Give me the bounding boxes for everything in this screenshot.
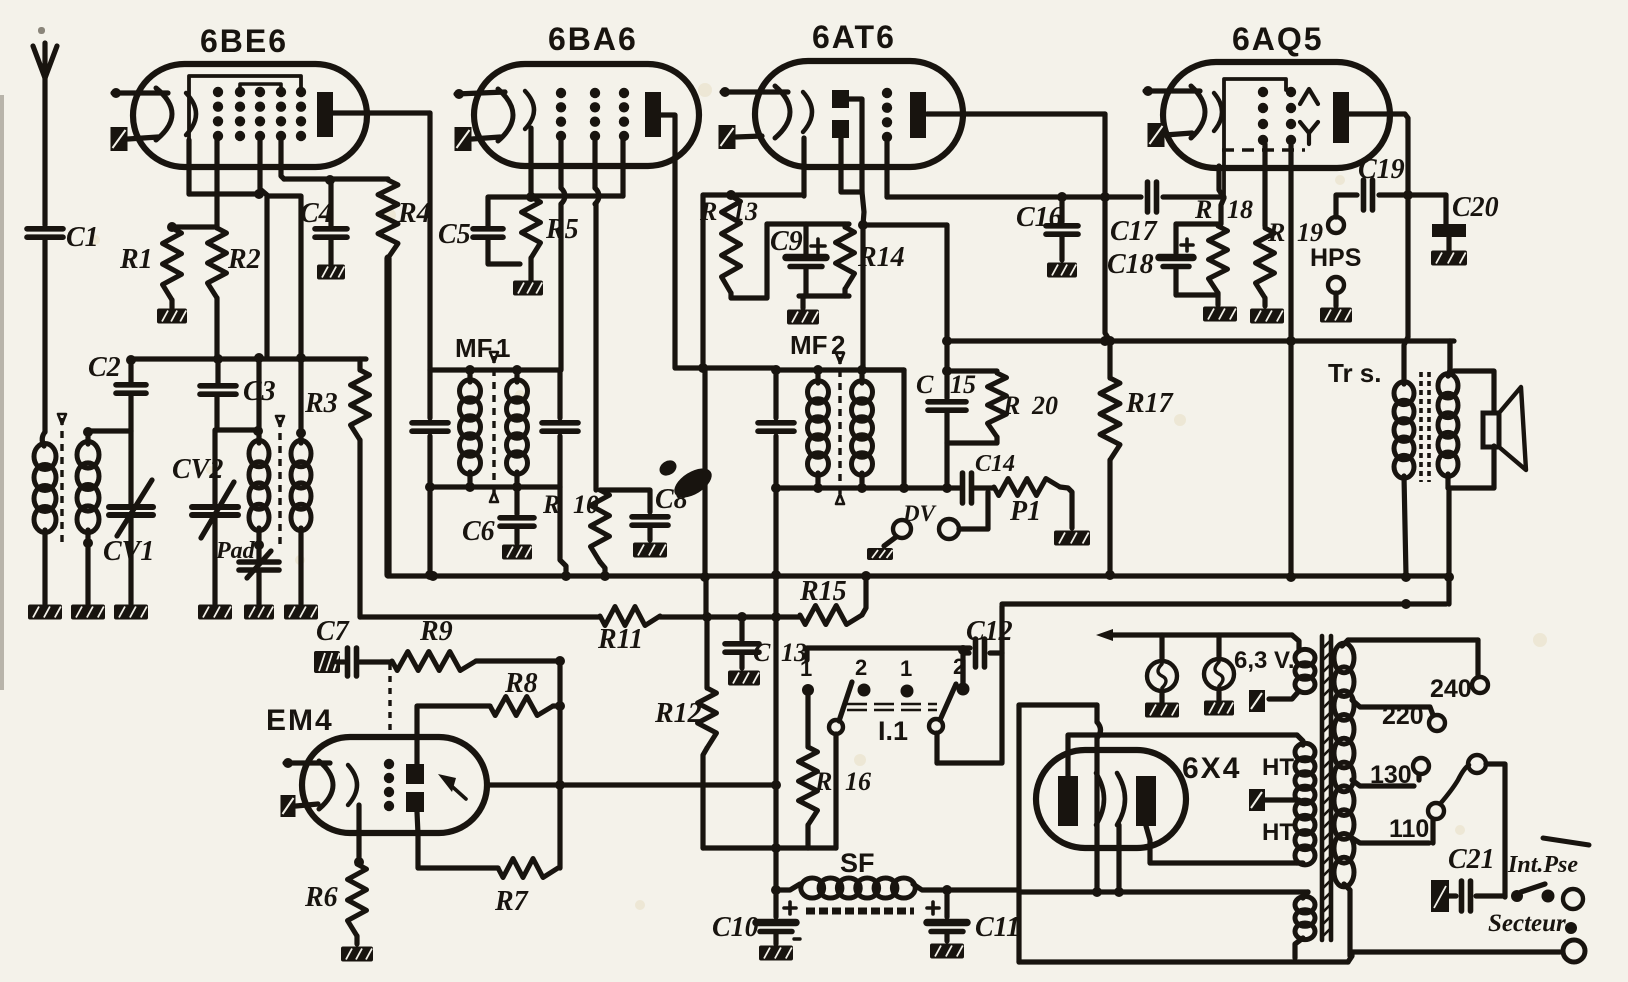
6BE6 grid g1 dots — [213, 87, 223, 141]
tube 6X4 label — [1182, 752, 1241, 785]
resistor R12 — [654, 617, 717, 848]
svg-text:10: 10 — [573, 490, 599, 519]
svg-text:220: 220 — [1382, 702, 1424, 730]
ink blob — [657, 457, 717, 503]
svg-text:R9: R9 — [419, 616, 453, 647]
switch box right — [937, 653, 1002, 763]
tap 130 — [1352, 758, 1429, 789]
6BE6 grid g5 dots — [296, 87, 306, 141]
AVC bus2 — [360, 614, 600, 619]
6BE6 internal frame — [189, 76, 301, 160]
variable capacitor CV1 — [103, 431, 154, 604]
ground R5 — [513, 281, 543, 296]
svg-text:240: 240 — [1430, 675, 1472, 703]
wire antenna to coil — [42, 240, 45, 446]
capacitor C4 — [300, 181, 347, 264]
bus1 right bend — [1444, 488, 1454, 604]
voltage selector link — [1440, 755, 1505, 897]
ground C13 — [728, 671, 760, 686]
wire diode to MF2 — [858, 220, 904, 370]
svg-text:16: 16 — [845, 767, 871, 796]
label I.1 — [878, 716, 908, 746]
Tr s core — [1421, 372, 1429, 482]
svg-text:R17: R17 — [1125, 388, 1174, 419]
6AQ5 grid g1 dots — [1258, 87, 1268, 145]
svg-text:C1: C1 — [66, 222, 99, 253]
power transformer core — [1321, 636, 1331, 940]
wire speaker top branch — [1447, 341, 1452, 371]
6AT6 grid cap stub — [720, 87, 788, 97]
tube 6BE6 envelope — [133, 64, 367, 167]
svg-text:18: 18 — [1227, 195, 1253, 224]
svg-text:SF: SF — [840, 848, 875, 878]
ground R18 — [1203, 307, 1237, 322]
6BA6 grid g3 dots — [619, 88, 629, 141]
6AT6 cathode arc1 — [775, 86, 790, 138]
6BE6 pin wire osc-a — [267, 140, 301, 358]
chassis HT — [1249, 789, 1299, 811]
oscillator coil left winding — [249, 353, 269, 550]
svg-text:C: C — [916, 370, 934, 399]
capacitor C20 — [1432, 192, 1499, 250]
HT+ line — [1002, 599, 1446, 609]
6X4 plate1 wire — [1068, 735, 1297, 776]
dial lamp 1 — [1147, 635, 1177, 702]
label HPS — [1310, 244, 1361, 272]
primary top wire — [1348, 640, 1478, 677]
resistor R6 — [304, 864, 367, 944]
rectifier box — [1019, 705, 1097, 890]
svg-text:MF: MF — [790, 330, 828, 360]
EM4 indicator arrow — [438, 774, 466, 799]
svg-text:I.1: I.1 — [878, 716, 908, 746]
mains switch Int — [1507, 852, 1583, 909]
6BA6 grid g1 dots — [556, 88, 566, 141]
MF2 top bar — [771, 365, 904, 375]
Tr s secondary — [1438, 341, 1458, 488]
6BA6 cathode arc2 — [525, 91, 534, 129]
svg-text:6AT6: 6AT6 — [812, 19, 896, 55]
6BA6 cathode wire — [528, 128, 533, 197]
svg-text:R6: R6 — [304, 882, 338, 913]
mains line bottom — [1019, 922, 1585, 962]
6AQ5 anode — [1333, 92, 1408, 337]
speaker — [1483, 387, 1526, 470]
resistor R17 — [1100, 378, 1174, 580]
wire bus2 to switch — [771, 617, 781, 895]
wire R8R7 right rail — [555, 656, 565, 868]
EM4 target plate 2 — [406, 792, 424, 812]
6BE6 screen line — [284, 175, 388, 185]
ground R1 — [157, 309, 187, 324]
svg-text:C19: C19 — [1358, 154, 1405, 185]
svg-text:Secteur: Secteur — [1488, 910, 1566, 937]
6AT6 grid wire — [887, 141, 1110, 202]
6BE6 pin wire osc-g — [254, 140, 267, 358]
svg-text:15: 15 — [950, 370, 976, 399]
6AQ5 cathode arc2 — [1214, 93, 1222, 131]
tube 6BA6 label — [548, 21, 638, 57]
speaker jack HPS upper — [1328, 195, 1357, 233]
svg-text:13: 13 — [732, 197, 758, 226]
ground CV2 — [198, 605, 232, 620]
svg-text:R4: R4 — [397, 198, 431, 229]
svg-text:C5: C5 — [438, 219, 471, 250]
6X4 cathode wire — [1116, 825, 1121, 890]
MF1 secondary winding — [507, 370, 528, 487]
ground lamp1 — [1145, 703, 1179, 718]
EM4 target wire up — [417, 706, 490, 764]
6BE6 grid g3 dots — [255, 87, 265, 141]
capacitor C11 — [927, 885, 1020, 943]
paper stains — [90, 83, 1547, 910]
wire 6AT6 k down — [700, 195, 712, 622]
tube 6BA6 envelope — [474, 64, 699, 166]
6X4 heater wire — [1097, 705, 1101, 890]
EM4 grid dash — [384, 664, 394, 811]
primary winding — [1334, 640, 1354, 956]
capacitor C10 — [712, 890, 800, 944]
6BA6 anode wire — [661, 115, 776, 373]
capacitor C17 — [1105, 182, 1224, 247]
svg-text:R7: R7 — [494, 886, 529, 917]
ground C4 — [317, 265, 345, 280]
6AQ5 internal frame — [1224, 79, 1286, 196]
capacitor C16 — [1016, 192, 1078, 260]
6AT6 diode plate 1 — [832, 90, 849, 108]
svg-text:R: R — [814, 767, 832, 796]
svg-text:HT: HT — [1262, 819, 1294, 846]
resistor R13 — [699, 190, 767, 298]
tube EM4 envelope — [302, 737, 487, 833]
B+ bus1 — [388, 571, 1448, 581]
label 6.3V — [1234, 647, 1295, 674]
resistor R4 — [378, 180, 431, 575]
MF2 bottom bar — [771, 483, 909, 493]
capacitor C19 — [1358, 154, 1446, 210]
MF1 primary winding — [460, 370, 481, 487]
phono jack DV right — [939, 492, 988, 539]
resistor R7 — [494, 859, 558, 918]
ground Pad — [244, 605, 274, 620]
svg-text:HT: HT — [1262, 754, 1294, 781]
6BE6 grid g2 dots — [235, 87, 245, 141]
6BE6 pin wire g — [214, 140, 219, 228]
6AQ5 heater — [1148, 123, 1193, 147]
tube 6AQ5 label — [1232, 21, 1324, 57]
svg-text:R: R — [1194, 195, 1212, 224]
svg-text:CV1: CV1 — [103, 536, 154, 567]
6AQ5 grid g2 dots — [1286, 87, 1296, 145]
tube 6AT6 label — [812, 19, 896, 55]
tube 6AQ5 envelope — [1163, 62, 1390, 168]
heater winding 6.3V — [1269, 649, 1315, 699]
MF1 left rail — [412, 113, 448, 575]
svg-text:R: R — [542, 490, 560, 519]
svg-text:C: C — [753, 638, 771, 667]
svg-text:C12: C12 — [966, 616, 1013, 647]
svg-text:Tr s.: Tr s. — [1328, 358, 1381, 388]
input transformer secondary coil L2 — [77, 427, 131, 604]
ground C20 — [1431, 251, 1467, 266]
EM4 cathode wire — [354, 805, 364, 867]
svg-text:CV2: CV2 — [172, 454, 223, 485]
ground lamp2 — [1204, 701, 1234, 716]
svg-text:Int.Pse: Int.Pse — [1507, 852, 1578, 878]
ground C11 — [930, 944, 964, 959]
capacitor C21 block — [1431, 844, 1505, 912]
svg-text:Pad: Pad — [215, 538, 256, 564]
wire C3 to CV2 — [214, 396, 219, 430]
resistor R11 — [597, 607, 660, 656]
6X4 plate 1 — [1058, 776, 1078, 826]
capacitor C5 — [438, 197, 531, 264]
MF1 top bar — [430, 365, 560, 375]
svg-text:R: R — [1267, 218, 1285, 247]
wire secondary to speaker — [1448, 371, 1494, 488]
phono jack DV left — [884, 501, 937, 546]
svg-text:C20: C20 — [1452, 192, 1499, 223]
ground ant primary — [28, 605, 62, 620]
capacitor C12 — [963, 616, 1013, 684]
capacitor C2 — [116, 359, 146, 431]
MF2 primary winding — [808, 370, 829, 488]
capacitor C18 — [1107, 224, 1218, 295]
6AT6 anode — [910, 92, 1105, 138]
capacitor C6 — [462, 487, 534, 547]
Tr s primary — [1394, 337, 1414, 582]
ground C8 — [633, 543, 667, 558]
ground R6 — [341, 947, 373, 962]
resistor R1 — [119, 222, 182, 308]
svg-text:R1: R1 — [119, 244, 153, 275]
heater line arrow — [1096, 629, 1299, 651]
svg-text:C9: C9 — [770, 226, 803, 257]
svg-text:20: 20 — [1031, 391, 1058, 420]
6BE6 grid cap stub — [111, 88, 168, 98]
EM4 grid cap stub — [283, 758, 330, 768]
switch contact 1b — [900, 656, 914, 698]
MF2 left rail — [758, 370, 794, 488]
terminal 240 — [1430, 675, 1488, 703]
antenna — [33, 43, 57, 225]
EM4 heater — [281, 795, 319, 817]
6BE6 grid g4 dots — [276, 87, 286, 141]
capacitor C3 — [200, 360, 276, 407]
MF2 core — [836, 353, 844, 504]
svg-text:6X4: 6X4 — [1182, 752, 1241, 785]
resistor R15 — [799, 576, 866, 625]
resistor R8 — [490, 668, 560, 716]
svg-text:1: 1 — [496, 333, 510, 363]
svg-text:19: 19 — [1297, 218, 1323, 247]
svg-text:C11: C11 — [975, 912, 1020, 943]
switch contact 2 — [855, 655, 871, 697]
EM4 cathode arc1 — [319, 761, 333, 809]
6AT6 cathode arc2 — [803, 92, 812, 132]
resistor R20 — [942, 366, 1058, 443]
resistor R10 — [542, 490, 610, 575]
ground R19 — [1250, 309, 1284, 324]
6BA6 anode — [645, 92, 661, 137]
ground ant secondary — [71, 605, 105, 620]
svg-text:C10: C10 — [712, 912, 759, 943]
resistor R14 — [836, 224, 905, 296]
EM4 target plate 1 — [406, 764, 424, 784]
resistor R5 — [522, 192, 579, 282]
wire MF2 left rail down — [771, 488, 781, 622]
6AQ5 cathode arc1 — [1191, 86, 1205, 138]
6AQ5 g2 wire — [1262, 144, 1267, 226]
MF1 right rail — [542, 370, 578, 575]
ground HPS — [1320, 308, 1352, 323]
switch contact 1 — [800, 656, 814, 747]
tube 6X4 envelope — [1036, 750, 1186, 848]
decor stroke — [1543, 838, 1589, 845]
svg-text:MF: MF — [455, 333, 493, 363]
capacitor C14 — [963, 451, 1016, 503]
6X4 plate 2 — [1136, 776, 1156, 826]
MF2 right rail — [901, 370, 906, 488]
power box left — [999, 606, 1004, 653]
6AT6 grid dots — [882, 88, 892, 142]
C9 bottom rail — [799, 296, 849, 308]
speaker jack HPS lower — [1328, 277, 1344, 306]
6BE6 cathode arc2 — [186, 93, 196, 135]
6X4 cathode arcs — [1096, 773, 1125, 825]
ground C7 — [314, 651, 340, 673]
oscillator core — [276, 416, 284, 550]
svg-text:C4: C4 — [300, 198, 333, 229]
bus2 mid — [660, 612, 800, 622]
wire AVC bus upper — [126, 354, 366, 365]
capacitor C9 — [767, 224, 849, 296]
6BA6 grid g2 dots — [590, 88, 600, 141]
6AT6 diode wires — [841, 99, 864, 225]
MF2 secondary winding — [852, 370, 873, 488]
capacitor C1 — [27, 222, 99, 253]
svg-text:C21: C21 — [1448, 844, 1495, 875]
svg-text:130: 130 — [1370, 761, 1412, 789]
svg-text:HPS: HPS — [1310, 244, 1361, 272]
oscillator coil right winding — [291, 353, 311, 604]
svg-text:C2: C2 — [88, 352, 121, 383]
6BE6 cathode arc1 — [156, 88, 172, 140]
LT winding lower — [1295, 892, 1315, 958]
tube EM4 label — [266, 704, 334, 737]
svg-text:110: 110 — [1389, 815, 1429, 843]
wire detector out — [904, 483, 961, 493]
6BA6 g1 wire — [561, 140, 565, 370]
switch contact 2b — [953, 645, 970, 696]
svg-text:R11: R11 — [597, 624, 643, 655]
6X4 plate2 wire — [1146, 826, 1297, 863]
EM4 plate wire — [487, 780, 781, 790]
dial lamp 2 — [1204, 635, 1234, 700]
choke SF — [776, 848, 1019, 898]
switch link dashes — [847, 704, 937, 710]
EM4 cathode arc2 — [348, 765, 357, 805]
6AT6 diode plate 2 — [832, 120, 849, 138]
svg-text:6AQ5: 6AQ5 — [1232, 21, 1324, 57]
6BE6 heater — [111, 127, 159, 151]
6BE6 anode — [317, 92, 430, 137]
6AQ5 beam plates — [1300, 89, 1318, 144]
capacitor C7 — [316, 616, 392, 676]
IF transformer MF1 label — [455, 333, 510, 363]
svg-text:6BA6: 6BA6 — [548, 21, 638, 57]
tap 220 — [1352, 700, 1445, 731]
tube 6BE6 label — [200, 23, 288, 59]
svg-text:R5: R5 — [545, 214, 579, 245]
6BA6 heater — [455, 127, 501, 151]
HT winding upper — [1262, 735, 1315, 804]
chassis 6.3V — [1249, 690, 1265, 712]
ground CV1 — [114, 605, 148, 620]
6BA6 cathode arc1 — [498, 89, 513, 141]
svg-text:R: R — [1002, 391, 1020, 420]
resistor R2 — [208, 228, 261, 358]
MF1 bottom bar — [425, 482, 560, 580]
svg-text:C18: C18 — [1107, 249, 1154, 280]
svg-text:C14: C14 — [975, 451, 1015, 477]
switch lever left — [829, 682, 852, 734]
6BA6 grid cap stub — [454, 89, 505, 99]
capacitor C13 — [725, 617, 807, 668]
resistor R19 — [1256, 218, 1324, 306]
svg-text:C6: C6 — [462, 516, 495, 547]
svg-text:1: 1 — [800, 656, 812, 681]
MF1 core — [490, 352, 498, 502]
svg-text:R3: R3 — [304, 388, 338, 419]
6AT6 cathode wire — [703, 138, 804, 196]
resistor R16 — [799, 747, 872, 848]
6AQ5 cathode wire — [1219, 166, 1224, 224]
ground C9 — [787, 310, 819, 325]
ground DV — [867, 548, 893, 560]
ground C10 — [759, 946, 793, 961]
svg-text:DV: DV — [902, 501, 937, 526]
svg-text:R2: R2 — [227, 244, 261, 275]
output transformer Tr s label — [1328, 358, 1381, 388]
6AT6 heater — [719, 125, 763, 149]
svg-text:P1: P1 — [1009, 496, 1041, 527]
rectifier bottom bus — [1019, 887, 1308, 897]
tap 110 — [1352, 803, 1444, 843]
long line y340 — [942, 336, 1454, 346]
ground C6 — [502, 545, 532, 560]
wire 6AT6 anode down — [1105, 114, 1115, 378]
label Secteur — [1488, 910, 1566, 937]
scan edge artifact — [0, 27, 45, 690]
resistor R3 — [304, 359, 370, 617]
switch lever wire left — [833, 734, 838, 848]
ground osc right — [284, 605, 318, 620]
IF transformer MF2 label — [790, 330, 845, 360]
svg-text:R8: R8 — [504, 668, 538, 699]
wire R1-R2 link — [172, 224, 217, 229]
6BE6 pin wire k — [189, 140, 259, 194]
6AQ5 cathode dash line — [1222, 148, 1305, 152]
wire k line to C15 — [863, 222, 947, 227]
cathode node line 6BA6 — [531, 140, 623, 196]
label C2 — [88, 352, 121, 383]
EM4 target wire down — [417, 812, 498, 868]
HT winding lower — [1262, 800, 1315, 865]
svg-text:1: 1 — [900, 656, 912, 681]
resistor R9 — [392, 616, 560, 671]
padding capacitor Pad — [215, 538, 279, 604]
